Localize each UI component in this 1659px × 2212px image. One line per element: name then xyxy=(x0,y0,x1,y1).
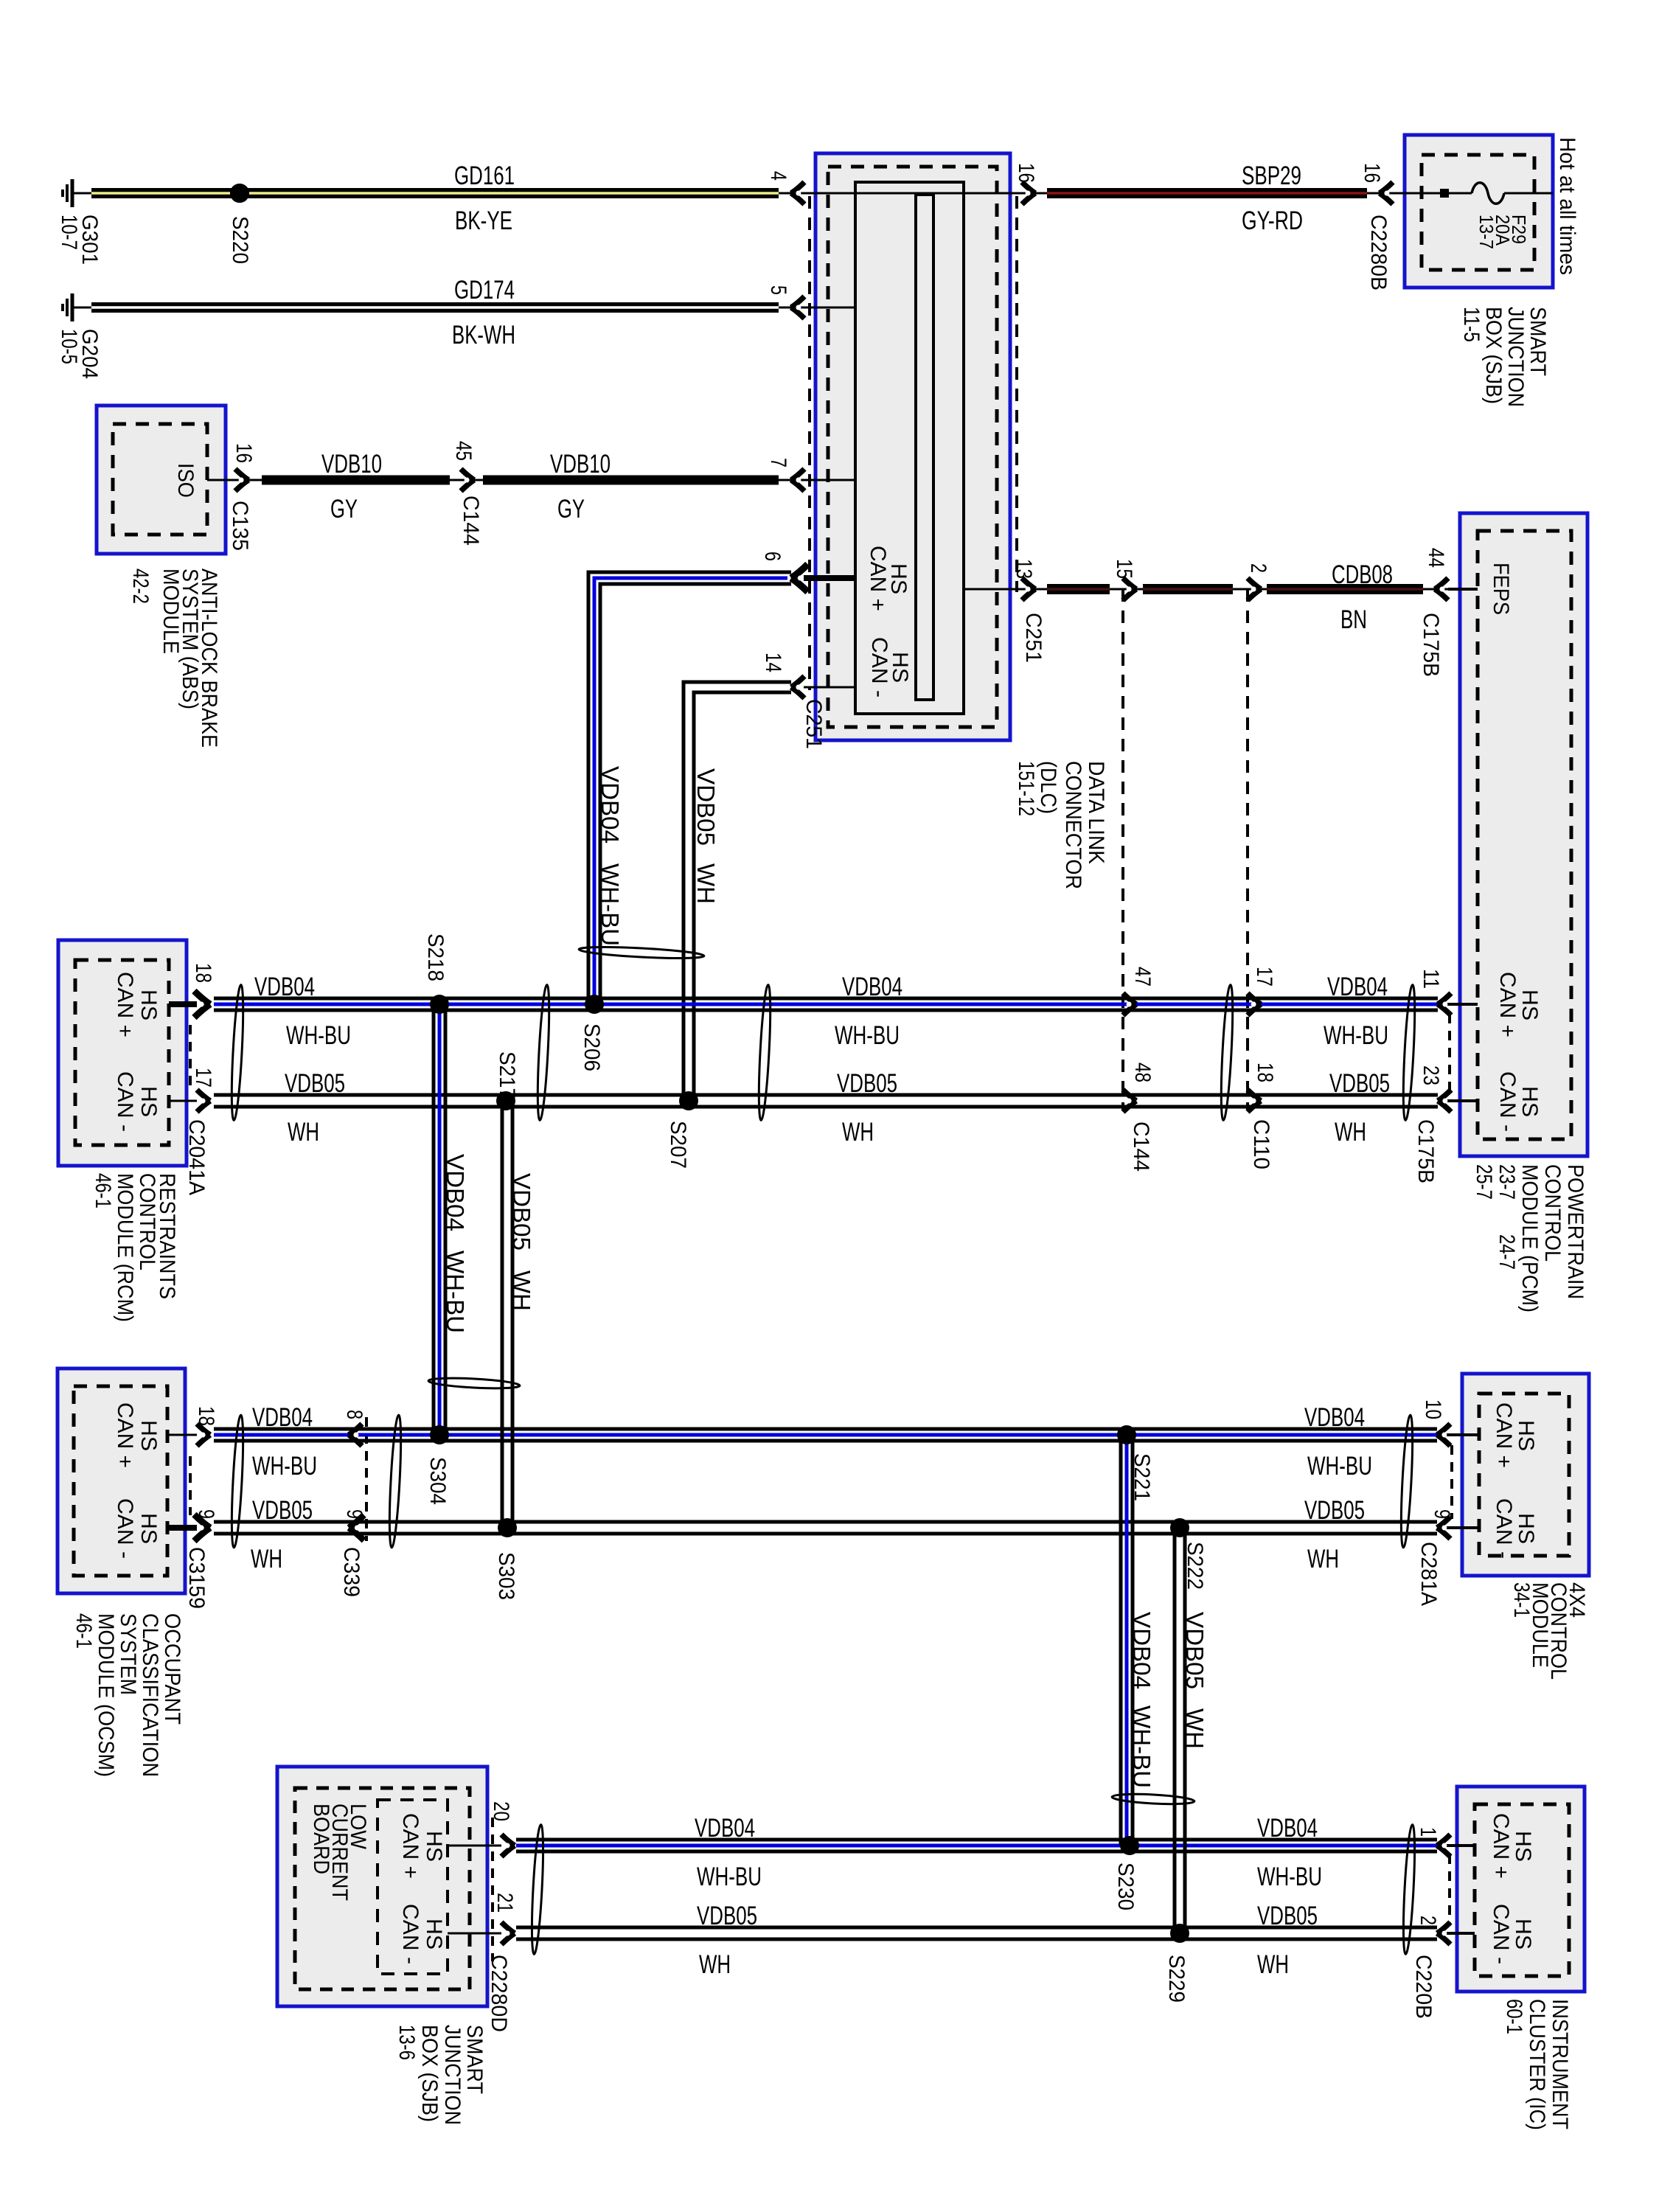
svg-text:15: 15 xyxy=(1112,559,1136,579)
svg-text:47: 47 xyxy=(1130,967,1155,987)
svg-text:C175B: C175B xyxy=(1419,613,1443,677)
svg-text:CLUSTER (IC): CLUSTER (IC) xyxy=(1525,1999,1549,2130)
svg-text:VDB04: VDB04 xyxy=(842,973,902,1001)
svg-text:CAN +: CAN + xyxy=(113,972,137,1037)
svg-text:BOARD: BOARD xyxy=(309,1804,333,1874)
svg-text:2: 2 xyxy=(1416,1916,1440,1925)
svg-text:INSTRUMENT: INSTRUMENT xyxy=(1548,1999,1572,2129)
svg-text:SYSTEM: SYSTEM xyxy=(116,1613,140,1695)
svg-text:WH-BU: WH-BU xyxy=(286,1021,351,1050)
svg-text:10-5: 10-5 xyxy=(57,329,81,364)
svg-text:WH: WH xyxy=(508,1270,535,1311)
svg-text:Hot at all times: Hot at all times xyxy=(1555,137,1579,275)
svg-text:GY: GY xyxy=(557,495,585,524)
svg-text:WH: WH xyxy=(251,1545,282,1573)
svg-text:VDB05: VDB05 xyxy=(692,768,720,846)
svg-text:VDB10: VDB10 xyxy=(321,450,382,479)
svg-text:16: 16 xyxy=(1360,163,1384,183)
svg-text:46-1: 46-1 xyxy=(91,1173,115,1208)
svg-text:VDB10: VDB10 xyxy=(550,450,611,479)
svg-text:S207: S207 xyxy=(666,1121,690,1169)
svg-text:C2041A: C2041A xyxy=(184,1119,209,1195)
svg-text:VDB05: VDB05 xyxy=(285,1069,345,1098)
svg-text:HS: HS xyxy=(136,1086,161,1117)
svg-text:HS: HS xyxy=(136,1513,161,1544)
svg-text:13-6: 13-6 xyxy=(394,2025,419,2060)
svg-text:WH: WH xyxy=(699,1950,731,1979)
svg-text:CAN +: CAN + xyxy=(866,546,890,611)
svg-text:4: 4 xyxy=(766,171,790,181)
svg-text:8: 8 xyxy=(342,1410,366,1419)
svg-text:MODULE (PCM): MODULE (PCM) xyxy=(1517,1164,1542,1312)
svg-text:48: 48 xyxy=(1130,1062,1155,1082)
svg-text:CAN +: CAN + xyxy=(398,1813,422,1879)
svg-text:7: 7 xyxy=(766,458,790,467)
svg-text:VDB05: VDB05 xyxy=(1257,1902,1318,1930)
svg-text:CAN -: CAN - xyxy=(1489,1904,1513,1964)
svg-text:S218: S218 xyxy=(423,933,448,981)
svg-text:VDB05: VDB05 xyxy=(837,1069,897,1098)
svg-text:C3159: C3159 xyxy=(184,1547,209,1609)
svg-text:VDB05: VDB05 xyxy=(1329,1069,1390,1098)
svg-text:C175B: C175B xyxy=(1413,1119,1438,1183)
svg-text:HS: HS xyxy=(1511,1831,1535,1862)
svg-text:WH-BU: WH-BU xyxy=(1128,1705,1155,1788)
svg-text:GD161: GD161 xyxy=(454,161,515,190)
svg-text:VDB04: VDB04 xyxy=(1327,973,1388,1001)
svg-text:23-7: 23-7 xyxy=(1495,1164,1519,1200)
svg-text:34-1: 34-1 xyxy=(1509,1582,1534,1618)
svg-text:16: 16 xyxy=(1014,163,1038,183)
svg-text:WH: WH xyxy=(842,1118,874,1147)
svg-text:VDB05: VDB05 xyxy=(1181,1612,1208,1689)
svg-text:11-5: 11-5 xyxy=(1459,307,1484,342)
svg-text:CAN +: CAN + xyxy=(1495,972,1520,1037)
svg-text:MODULE: MODULE xyxy=(159,568,183,654)
svg-text:151-12: 151-12 xyxy=(1014,761,1038,816)
svg-text:VDB04: VDB04 xyxy=(1128,1612,1155,1689)
svg-text:CAN -: CAN - xyxy=(1495,1071,1520,1132)
svg-text:HS: HS xyxy=(136,1420,161,1451)
svg-text:10-7: 10-7 xyxy=(57,215,81,250)
svg-text:C135: C135 xyxy=(228,501,252,551)
svg-text:45: 45 xyxy=(451,441,476,461)
svg-text:HS: HS xyxy=(1514,1420,1538,1451)
svg-text:18: 18 xyxy=(1253,1062,1277,1082)
svg-text:WH-BU: WH-BU xyxy=(697,1863,762,1891)
svg-text:13: 13 xyxy=(1012,559,1036,579)
svg-text:6: 6 xyxy=(760,552,785,561)
svg-text:17: 17 xyxy=(1252,967,1276,987)
svg-text:S229: S229 xyxy=(1164,1955,1189,2003)
svg-text:VDB04: VDB04 xyxy=(1257,1814,1318,1843)
svg-text:WH-BU: WH-BU xyxy=(835,1021,900,1050)
svg-text:VDB04: VDB04 xyxy=(442,1154,469,1231)
svg-text:23: 23 xyxy=(1419,1065,1443,1085)
svg-text:17: 17 xyxy=(191,1068,215,1088)
svg-text:S221: S221 xyxy=(1130,1453,1154,1501)
svg-text:42-2: 42-2 xyxy=(128,568,153,604)
svg-text:S217: S217 xyxy=(495,1051,519,1099)
svg-text:C2280B: C2280B xyxy=(1366,215,1391,291)
svg-text:HS: HS xyxy=(422,1831,446,1862)
svg-text:C251: C251 xyxy=(1021,613,1046,663)
svg-text:JUNCTION: JUNCTION xyxy=(440,2025,465,2125)
svg-text:WH: WH xyxy=(1335,1118,1366,1147)
svg-text:MODULE (RCM): MODULE (RCM) xyxy=(113,1173,137,1322)
svg-text:CAN +: CAN + xyxy=(1492,1402,1516,1468)
svg-text:DATA LINK: DATA LINK xyxy=(1084,761,1108,864)
svg-text:VDB04: VDB04 xyxy=(597,766,624,844)
svg-text:18: 18 xyxy=(191,963,215,983)
svg-text:GY: GY xyxy=(330,495,358,524)
svg-text:VDB04: VDB04 xyxy=(252,1403,313,1432)
svg-text:CAN -: CAN - xyxy=(398,1904,422,1964)
svg-text:S222: S222 xyxy=(1183,1542,1207,1590)
svg-text:WH: WH xyxy=(1181,1708,1208,1749)
svg-text:SMART: SMART xyxy=(1526,307,1550,376)
svg-text:S230: S230 xyxy=(1113,1863,1138,1910)
svg-text:14: 14 xyxy=(761,653,785,672)
svg-text:WH: WH xyxy=(1307,1545,1339,1573)
svg-text:VDB05: VDB05 xyxy=(1304,1496,1365,1525)
svg-text:VDB05: VDB05 xyxy=(252,1496,313,1525)
svg-text:JUNCTION: JUNCTION xyxy=(1503,307,1528,407)
svg-text:VDB04: VDB04 xyxy=(1304,1403,1365,1432)
svg-text:WH-BU: WH-BU xyxy=(1307,1452,1372,1481)
svg-text:HS: HS xyxy=(1511,1919,1535,1950)
svg-text:25-7: 25-7 xyxy=(1472,1164,1496,1200)
svg-text:VDB04: VDB04 xyxy=(254,973,315,1001)
svg-text:5: 5 xyxy=(766,285,790,295)
svg-text:CDB08: CDB08 xyxy=(1332,560,1393,589)
svg-text:WH: WH xyxy=(1257,1950,1289,1979)
svg-text:C2280D: C2280D xyxy=(487,1955,511,2032)
svg-text:OCCUPANT: OCCUPANT xyxy=(160,1613,184,1725)
svg-text:WH: WH xyxy=(288,1118,319,1147)
svg-text:HS: HS xyxy=(136,990,161,1020)
svg-text:C144: C144 xyxy=(459,495,483,546)
svg-text:9: 9 xyxy=(1430,1509,1454,1519)
svg-text:16: 16 xyxy=(232,443,256,463)
svg-text:CONTROL: CONTROL xyxy=(1540,1164,1565,1262)
svg-text:WH: WH xyxy=(692,863,720,904)
svg-text:SMART: SMART xyxy=(462,2025,487,2094)
svg-text:C339: C339 xyxy=(339,1547,364,1597)
svg-text:BK-YE: BK-YE xyxy=(455,206,512,235)
svg-text:18: 18 xyxy=(194,1406,218,1426)
svg-text:VDB05: VDB05 xyxy=(697,1902,757,1930)
svg-text:FEPS: FEPS xyxy=(1489,563,1513,615)
svg-text:CAN +: CAN + xyxy=(1489,1813,1513,1879)
svg-text:CAN -: CAN - xyxy=(113,1498,137,1559)
svg-text:SBP29: SBP29 xyxy=(1242,161,1301,190)
svg-text:60-1: 60-1 xyxy=(1502,1999,1526,2034)
svg-text:C251: C251 xyxy=(801,699,826,749)
svg-text:WH-BU: WH-BU xyxy=(597,863,624,946)
svg-text:24-7: 24-7 xyxy=(1495,1234,1519,1270)
svg-text:21: 21 xyxy=(493,1893,517,1913)
svg-text:(DLC): (DLC) xyxy=(1036,761,1060,814)
svg-text:CAN -: CAN - xyxy=(867,637,891,698)
svg-text:20: 20 xyxy=(489,1801,513,1821)
svg-text:GY-RD: GY-RD xyxy=(1242,206,1303,235)
svg-text:WH-BU: WH-BU xyxy=(442,1251,469,1333)
svg-text:BOX (SJB): BOX (SJB) xyxy=(1481,307,1506,404)
svg-text:HS: HS xyxy=(1517,1086,1542,1117)
svg-text:46-1: 46-1 xyxy=(72,1613,96,1649)
svg-text:CONTROL: CONTROL xyxy=(135,1173,159,1270)
svg-text:CAN -: CAN - xyxy=(1492,1498,1516,1559)
svg-text:C144: C144 xyxy=(1129,1121,1153,1172)
svg-text:9: 9 xyxy=(342,1509,366,1519)
svg-text:CONNECTOR: CONNECTOR xyxy=(1061,761,1085,889)
svg-text:2: 2 xyxy=(1246,563,1270,573)
svg-text:S220: S220 xyxy=(228,216,252,264)
svg-text:HS: HS xyxy=(1514,1513,1538,1544)
svg-text:10: 10 xyxy=(1421,1399,1445,1419)
svg-text:BN: BN xyxy=(1340,605,1367,634)
svg-text:ISO: ISO xyxy=(173,463,198,498)
svg-text:HS: HS xyxy=(1517,990,1542,1020)
svg-text:BK-WH: BK-WH xyxy=(452,321,515,349)
svg-text:44: 44 xyxy=(1424,548,1448,568)
svg-text:S304: S304 xyxy=(425,1457,450,1505)
svg-text:CAN +: CAN + xyxy=(113,1402,137,1468)
svg-text:CLASSIFICATION: CLASSIFICATION xyxy=(138,1613,162,1777)
svg-text:POWERTRAIN: POWERTRAIN xyxy=(1563,1164,1587,1299)
svg-text:S206: S206 xyxy=(580,1023,604,1071)
svg-text:HS: HS xyxy=(422,1919,446,1950)
svg-text:S303: S303 xyxy=(494,1552,518,1600)
svg-text:WH-BU: WH-BU xyxy=(1324,1021,1388,1050)
svg-text:WH-BU: WH-BU xyxy=(1257,1863,1322,1891)
svg-text:MODULE (OCSM): MODULE (OCSM) xyxy=(94,1613,118,1777)
svg-text:CAN -: CAN - xyxy=(113,1071,137,1132)
svg-text:11: 11 xyxy=(1419,969,1443,989)
svg-text:13-7: 13-7 xyxy=(1475,215,1498,249)
svg-text:1: 1 xyxy=(1416,1827,1440,1837)
svg-text:C110: C110 xyxy=(1249,1119,1273,1169)
svg-text:VDB04: VDB04 xyxy=(695,1814,755,1843)
svg-text:9: 9 xyxy=(194,1509,218,1519)
svg-text:C281A: C281A xyxy=(1416,1542,1441,1606)
svg-text:GD174: GD174 xyxy=(454,276,515,305)
svg-text:C220B: C220B xyxy=(1411,1955,1436,2019)
svg-text:VDB05: VDB05 xyxy=(508,1173,535,1251)
svg-text:WH-BU: WH-BU xyxy=(252,1452,317,1481)
svg-text:BOX (SJB): BOX (SJB) xyxy=(417,2025,442,2122)
